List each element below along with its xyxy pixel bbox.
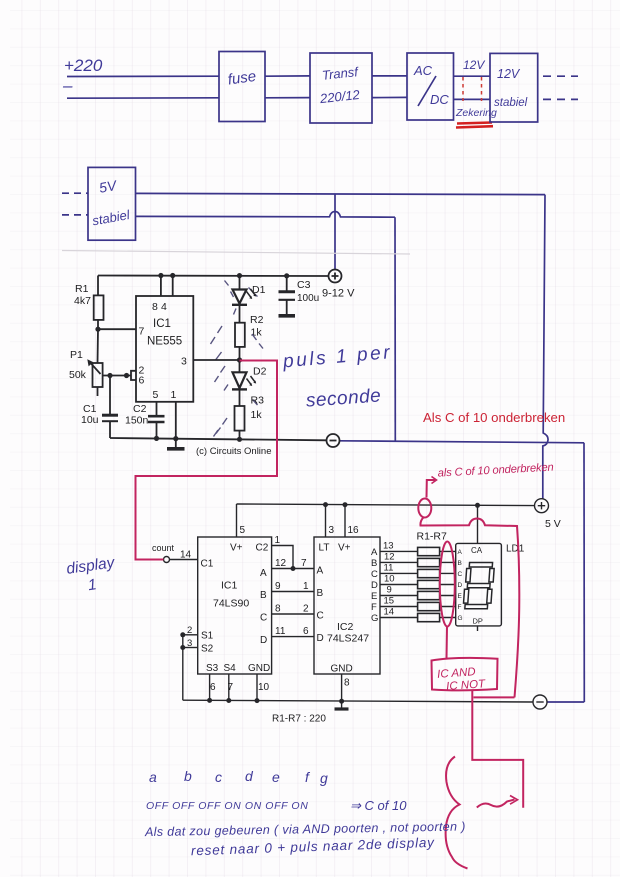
node R3 ground junction [237, 437, 242, 442]
wire CA stub to V+ rail [477, 505, 479, 543]
wire bracket to pin2 and pin6 [131, 371, 136, 380]
svg-text:D: D [317, 633, 324, 644]
node pin4 stub junction [170, 273, 175, 278]
svg-text:8: 8 [152, 301, 158, 313]
resistor R1 (seg a) [418, 547, 440, 555]
svg-text:50k: 50k [69, 369, 87, 381]
svg-text:DP: DP [473, 617, 483, 626]
ellipse around segment wires [440, 542, 455, 627]
label Zekering [455, 107, 497, 119]
pin label 5 (IC1 Vcc) [240, 525, 246, 536]
wire count input [170, 559, 198, 561]
label E (IC2 out) [371, 591, 377, 602]
wire QD to IC2 D [272, 636, 314, 638]
wire rectifier-stabiliser bottom [454, 98, 491, 100]
svg-text:A: A [317, 566, 324, 577]
label V+ (IC2) [338, 543, 351, 554]
label C1 [83, 403, 97, 415]
ground symbol C3 [279, 314, 296, 318]
pin label 16 (IC2 Vcc) [348, 525, 360, 536]
transformer T1 box [310, 53, 372, 123]
node C2 ground junction [154, 436, 159, 441]
svg-text:LD1: LD1 [506, 544, 525, 555]
wire R2 to display b [440, 561, 456, 563]
pin label 10 (GND) [258, 682, 270, 693]
wire seg e [380, 595, 418, 597]
label C (IC2 out) [371, 569, 378, 580]
wire C3 branch [286, 276, 288, 291]
svg-text:11: 11 [275, 626, 286, 637]
svg-text:7: 7 [139, 326, 145, 338]
svg-text:10u: 10u [81, 414, 99, 426]
capacitor C3 [279, 290, 296, 293]
wire GND stub (IC1) [256, 674, 258, 701]
wire 0V drop to 555 minus [394, 217, 396, 441]
wire 555 minus to right [340, 441, 584, 443]
svg-text:d: d [245, 768, 254, 784]
SECTION: 555 timer printed schematic [69, 270, 355, 458]
label D2 [253, 366, 267, 378]
wire 555 ground rail [110, 438, 327, 440]
wire pin1 to ground rail [175, 402, 177, 439]
svg-text:74LS90: 74LS90 [213, 598, 249, 610]
pin label 6 [139, 375, 145, 387]
node R1/P1/pin7 junction [95, 327, 100, 332]
wire seg f [380, 606, 418, 608]
ground symbol IC2 [335, 707, 349, 710]
svg-text:12: 12 [384, 552, 395, 563]
ground symbol 555 [175, 439, 177, 447]
supply terminal counter plus [535, 499, 549, 513]
wire S3 stub [209, 674, 211, 700]
svg-text:1: 1 [303, 581, 309, 592]
pin label 10 (seg d) [384, 574, 395, 585]
wire output node to D2 [239, 360, 241, 372]
svg-text:13: 13 [383, 541, 394, 552]
label C3 [297, 279, 311, 291]
wire magenta from tap down around display [420, 517, 519, 697]
SECTION: counter printed schematic [152, 499, 561, 725]
IC1 74LS90 box [198, 537, 272, 674]
label LT [319, 543, 330, 554]
svg-text:A: A [371, 547, 378, 558]
svg-text:1k: 1k [251, 409, 263, 421]
svg-text:11: 11 [384, 563, 394, 574]
label D (IC2 in) [317, 633, 324, 644]
pin label 9 [275, 581, 281, 592]
node S1 junction [180, 632, 185, 637]
wire R6 to display f [440, 606, 456, 608]
wire QB to IC2 B [272, 591, 314, 593]
pin label 3 (LT) [329, 525, 335, 536]
wire R1 to display a [440, 550, 456, 552]
svg-text:D: D [260, 635, 267, 646]
pin label 2 [303, 604, 309, 615]
label R2 [250, 314, 264, 326]
wire C1 to ground rail [109, 421, 111, 438]
LED D1 [233, 290, 247, 304]
wire magenta branch under IC box [474, 696, 515, 698]
label CA [471, 546, 483, 555]
svg-text:9: 9 [275, 581, 281, 592]
label D1 [252, 284, 266, 296]
label GND (IC2) [331, 664, 353, 675]
pin label 5 [153, 389, 159, 401]
pin label 1 [171, 389, 177, 401]
svg-text:4k7: 4k7 [74, 295, 91, 307]
svg-text:E: E [371, 591, 377, 602]
wire S1 input [183, 634, 198, 636]
label Transf 220/12 [318, 64, 361, 106]
label 4k7 [74, 295, 91, 307]
svg-text:6: 6 [303, 626, 309, 637]
rectifier AC/DC box [407, 53, 454, 120]
P1 bottom stub [97, 387, 99, 396]
label DC [430, 92, 449, 107]
label D (IC1) [260, 635, 267, 646]
svg-text:1k: 1k [251, 327, 263, 339]
dashed input wire 5V bottom [62, 214, 88, 216]
resistor R7 (seg g) [418, 613, 440, 621]
label 74LS247 [327, 633, 369, 645]
svg-text:c: c [215, 769, 222, 785]
wire right vertical 0V down [583, 443, 585, 702]
svg-text:12: 12 [275, 558, 287, 569]
svg-text:GND: GND [248, 663, 270, 674]
D1 emission arrows [247, 289, 257, 299]
svg-text:7: 7 [301, 558, 307, 569]
svg-text:D: D [458, 582, 463, 589]
wire mains neutral left [67, 97, 219, 99]
D1 light rays [225, 281, 258, 315]
pin label 6 (S3) [210, 682, 216, 693]
node pin8 stub junction [158, 273, 163, 278]
resistor R2 [235, 323, 245, 347]
pin label 7 (S4) [228, 682, 234, 693]
pin label 13 [383, 541, 394, 552]
wire IC1 Vcc stub [236, 504, 238, 537]
wire QA to IC2 A [272, 568, 314, 570]
wire counter ground rail [183, 700, 533, 702]
node wiper second junction [124, 373, 129, 378]
svg-text:C: C [371, 569, 378, 580]
svg-text:C2: C2 [133, 403, 147, 415]
wire S2 input [183, 647, 198, 649]
svg-text:A: A [458, 549, 463, 556]
svg-text:S3: S3 [206, 663, 219, 674]
node wiper/C1 junction [107, 373, 112, 378]
label IC1 (counter) [221, 580, 238, 592]
wire seg c [380, 572, 418, 574]
pin label 9 (seg e) [387, 585, 392, 596]
LED D2 [233, 372, 247, 388]
label B (IC2 in) [317, 588, 324, 599]
label D (IC2 out) [371, 580, 378, 591]
label V+ (IC1) [230, 543, 243, 554]
label P1 [70, 349, 83, 361]
pin label 3 (S2) [187, 638, 192, 649]
label B (IC2 out) [371, 558, 377, 569]
svg-text:OFF OFF OFF ON ON OFF: OFF OFF OFF ON ON OFF ON [146, 800, 308, 812]
svg-text:4: 4 [161, 301, 167, 313]
label 74LS90 [213, 598, 249, 610]
svg-text:CA: CA [471, 546, 483, 555]
svg-text:8: 8 [275, 604, 281, 615]
pin label 14 (seg g) [384, 607, 395, 618]
wire R3 to ground rail [239, 431, 241, 440]
svg-text:12V: 12V [497, 67, 521, 81]
svg-text:15: 15 [384, 596, 395, 607]
label S1 [201, 631, 214, 642]
curly brace [446, 757, 468, 869]
node C3 branch junction [284, 273, 289, 278]
svg-text:C: C [317, 611, 324, 622]
wire 5V+ rail horizontal [136, 193, 546, 194]
label C (IC2 in) [317, 611, 324, 622]
pin label 8 [152, 301, 158, 313]
pin label 8 (IC2 GND) [344, 678, 350, 689]
resistor R4 (seg d) [418, 580, 440, 588]
pin label 7 [301, 558, 307, 569]
wire R4 to display d [440, 584, 456, 586]
wire tap to 9-12V plus [334, 194, 336, 269]
svg-text:V+: V+ [230, 543, 243, 554]
svg-text:S1: S1 [201, 631, 214, 642]
wire node down to P1 [97, 329, 100, 363]
wire R5 to display e [440, 595, 456, 597]
zekering dashed red box [463, 77, 482, 101]
wire R2 to output node [239, 347, 241, 360]
svg-text:9-12 V: 9-12 V [322, 288, 355, 300]
label S2 [201, 644, 214, 655]
svg-text:C1: C1 [201, 559, 214, 570]
SECTION: top power chain [62, 52, 578, 128]
squiggle arrow to reset wire [477, 800, 515, 808]
wire rectifier-stabiliser top [454, 75, 491, 77]
svg-text:9: 9 [387, 585, 392, 596]
label 5V stabiel [91, 177, 132, 229]
node D1 branch junction [237, 273, 242, 278]
label IC2 [337, 621, 354, 633]
label G (IC2 out) [371, 613, 378, 624]
label als C of 10 onderbreken (handwritten) [437, 462, 553, 480]
svg-text:150n: 150n [125, 415, 149, 427]
wire transformer-rectifier bottom [372, 96, 407, 98]
label NE555 [147, 336, 182, 348]
wire count signal magenta [136, 361, 278, 560]
wire pin3 output [193, 359, 239, 361]
node tap circle on 5V rail [418, 499, 431, 518]
svg-text:C2: C2 [256, 543, 269, 554]
wire from AND box down [472, 690, 523, 808]
node S3 ground junction [207, 698, 212, 703]
svg-text:5 V: 5 V [545, 518, 561, 530]
wire LT stub [325, 505, 327, 537]
wire bottom to counter minus [547, 701, 584, 703]
label A (IC1) [260, 568, 267, 579]
svg-text:G: G [371, 613, 378, 624]
svg-text:IC1: IC1 [153, 318, 171, 330]
svg-text:AC: AC [413, 63, 433, 78]
label GND (IC1) [248, 663, 270, 674]
label R1-R7 : 220 [272, 714, 326, 725]
svg-text:6: 6 [210, 682, 216, 693]
svg-text:a: a [149, 769, 157, 785]
pin label 14 [180, 550, 192, 561]
pin label 1 (C2) [275, 535, 281, 546]
label 10u [81, 414, 99, 426]
pin label 1 (IC2 B) [303, 581, 309, 592]
faint pencil line [62, 251, 410, 255]
label (c) Circuits Online [196, 446, 272, 457]
wire R1 to node7 [97, 320, 99, 329]
node IC2 Vcc stub junction [343, 502, 348, 507]
label fuse [227, 68, 257, 89]
svg-text:3: 3 [181, 356, 187, 368]
label A (IC2 in) [317, 566, 324, 577]
pin label 12 [275, 558, 287, 569]
label C2 (IC1) [256, 543, 269, 554]
pin label 3 [181, 356, 187, 368]
node IC1 GND junction [255, 698, 260, 703]
label S3 [206, 663, 219, 674]
svg-text:B: B [260, 590, 267, 601]
wire wiper to pins 2/6 [103, 375, 131, 377]
wire seg a [380, 550, 418, 552]
label IC NOT [446, 678, 487, 693]
resistor R3 [235, 406, 245, 431]
label segment letters a b c d e f g [149, 768, 328, 786]
label R1-R7 [417, 531, 448, 543]
wire mains live left [67, 75, 219, 77]
svg-text:NE555: NE555 [147, 336, 182, 348]
svg-text:S4: S4 [224, 663, 237, 674]
wire DP stub [477, 626, 479, 631]
wire IC2 Vcc stub [344, 505, 346, 537]
node count open terminal [164, 557, 170, 563]
svg-text:D: D [371, 580, 378, 591]
svg-text:LT: LT [319, 543, 330, 554]
svg-text:3: 3 [329, 525, 335, 536]
wire V+ to R1 [97, 276, 99, 296]
arrow to tap circle [427, 480, 436, 498]
label 150n [125, 415, 149, 427]
label LD1 [506, 544, 525, 555]
D2 emission arrows [247, 376, 257, 386]
seven segment digit [463, 563, 494, 609]
svg-text:3: 3 [187, 638, 192, 649]
svg-text:e: e [272, 769, 280, 785]
resistor R6 (seg f) [418, 602, 440, 610]
node output junction [237, 357, 242, 362]
wire S4 stub [228, 674, 230, 700]
wire seg d [380, 584, 418, 586]
resistor R3 (seg c) [418, 569, 440, 577]
label +220 [64, 56, 103, 75]
red underline under Zekering [456, 123, 493, 128]
wire neutral fuse-transformer [265, 97, 310, 99]
capacitor C2 [148, 416, 165, 422]
wire D2 to R3 [239, 389, 241, 406]
svg-text:8: 8 [344, 678, 350, 689]
wire ellipse tail to AND box [446, 627, 449, 659]
label IC AND [437, 666, 476, 681]
label 5 V [545, 518, 561, 530]
dashed input wire 5V top [62, 192, 88, 194]
label AC [413, 63, 433, 78]
label 50k [69, 369, 87, 381]
wire 5V- rail horizontal (with hop over 9-12V tap) [136, 212, 396, 218]
node S2 junction [180, 645, 185, 650]
wire counter V+ top rail [237, 504, 535, 506]
wire 5V+ drop to counter (right vertical with hop) [543, 195, 548, 499]
wire seg g [380, 617, 418, 619]
pin label 12 (seg b) [384, 552, 395, 563]
wire 555 V+ top rail [98, 275, 329, 278]
svg-text:count: count [152, 543, 175, 553]
segment output wires a-g [380, 551, 418, 617]
svg-text:S2: S2 [201, 644, 214, 655]
label S4 [224, 663, 237, 674]
pin label 6 [303, 626, 309, 637]
svg-text:74LS247: 74LS247 [327, 633, 369, 645]
wire C2 to ground rail [156, 422, 158, 438]
label IC1 [153, 318, 171, 330]
svg-text:2: 2 [187, 625, 192, 636]
svg-text:P1: P1 [70, 349, 83, 361]
svg-text:B: B [458, 560, 462, 567]
svg-text:7: 7 [228, 682, 234, 693]
svg-text:12V: 12V [463, 58, 485, 72]
label R3 [251, 395, 265, 407]
dashed output wire top right [543, 75, 578, 77]
wire seg b [380, 561, 418, 563]
wire D1 to R2 [239, 305, 241, 323]
label 12V (above zekering box) [463, 58, 485, 72]
svg-text:R3: R3 [251, 395, 265, 407]
node LT stub junction [323, 502, 328, 507]
svg-text:g: g [320, 770, 328, 786]
supply terminal counter minus [533, 695, 547, 709]
op IC1 NE555 box [136, 296, 193, 402]
svg-text:Als C of 10 onderbreken: Als C of 10 onderbreken [423, 410, 565, 425]
supply terminal 555 minus [327, 434, 340, 447]
R2 light rays [211, 326, 264, 360]
SECTION: red + blue handwriting [65, 342, 565, 858]
svg-text:F: F [458, 604, 462, 611]
capacitor C1 [102, 414, 118, 417]
svg-text:(c) Circuits Online: (c) Circuits Online [196, 446, 272, 457]
wire R7 to display g [440, 617, 456, 619]
rectifier slash [418, 76, 436, 106]
svg-text:10: 10 [258, 682, 270, 693]
pin label 2 (S1) [187, 625, 192, 636]
svg-text:2: 2 [303, 604, 309, 615]
svg-text:6: 6 [139, 375, 145, 387]
wire QC to IC2 C [272, 613, 314, 615]
svg-text:100u: 100u [297, 293, 319, 304]
D2 light rays [215, 366, 258, 405]
svg-text:⇒ C of 10: ⇒ C of 10 [350, 798, 407, 813]
IC AND / IC NOT box [432, 658, 498, 690]
svg-text:R2: R2 [250, 314, 264, 326]
wire node to pin7 [98, 328, 136, 330]
pin label 2 [139, 365, 145, 377]
wire pin8 stub [160, 276, 162, 297]
potentiometer P1 [93, 363, 103, 387]
svg-text:5: 5 [240, 525, 246, 536]
resistor R5 (seg e) [418, 591, 440, 599]
